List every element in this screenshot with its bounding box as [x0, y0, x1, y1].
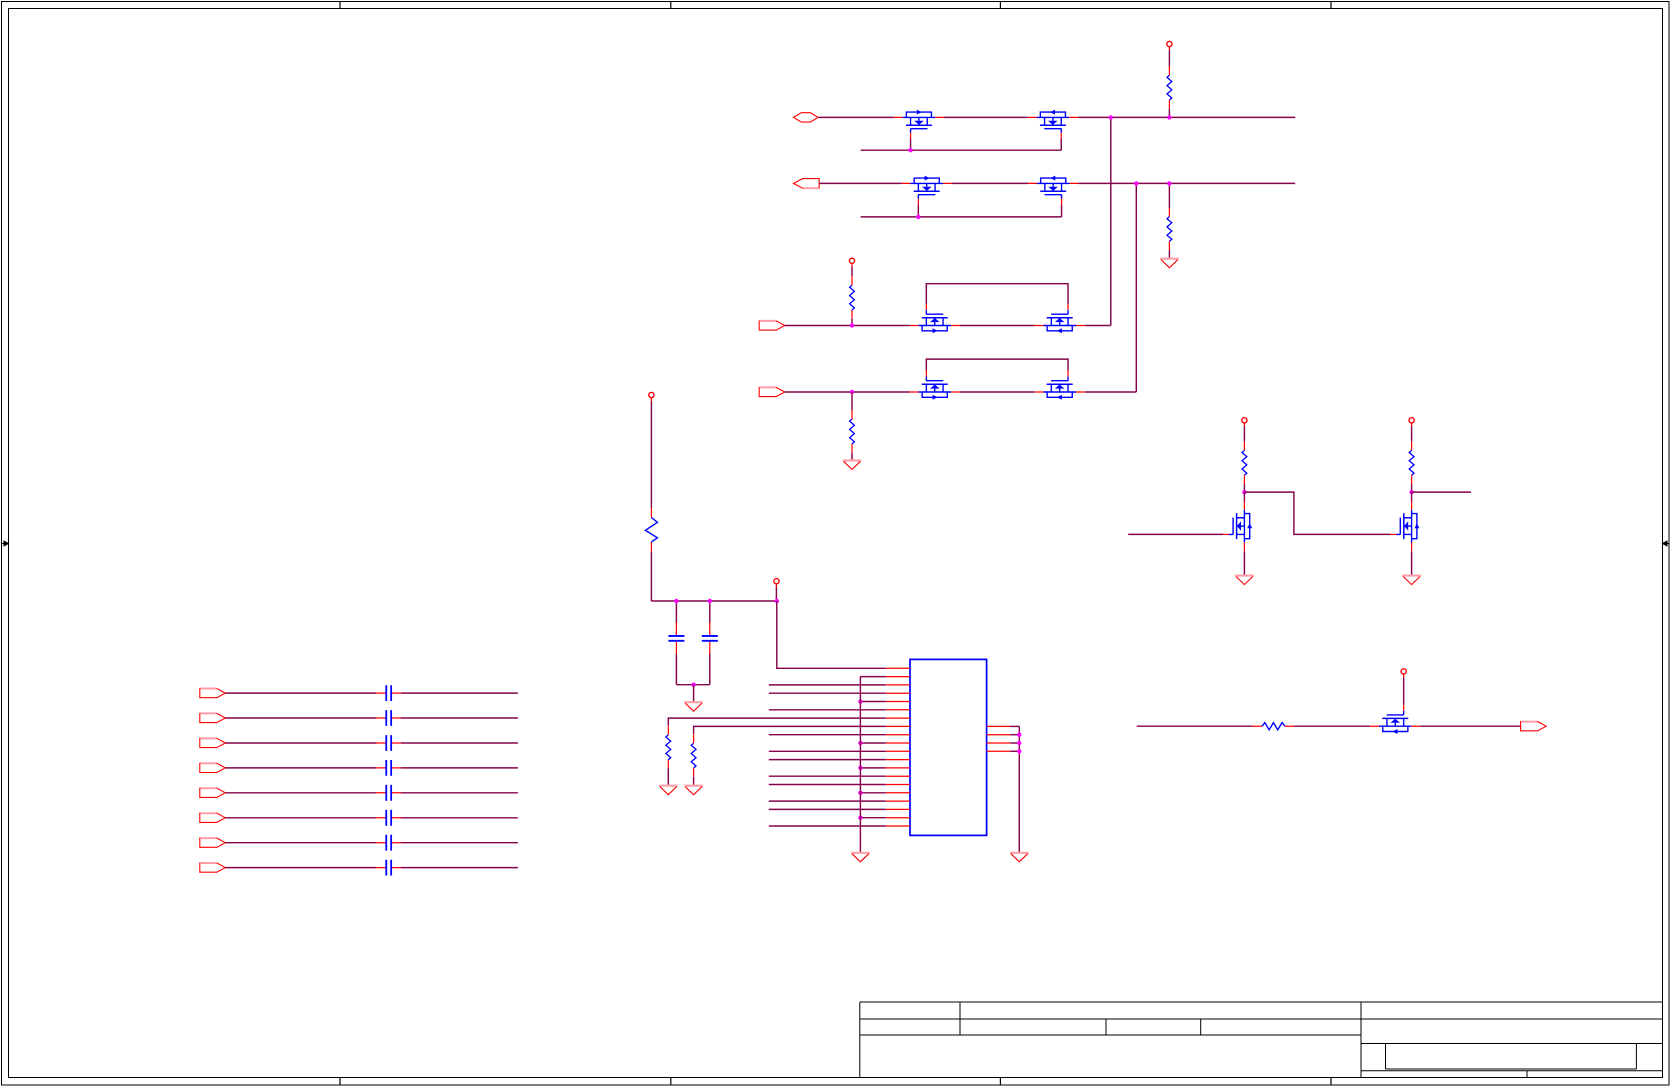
border zone ticks top [339, 2, 341, 9]
capacitor C10 [376, 860, 401, 876]
wire [1411, 492, 1413, 501]
port column row 3 [200, 738, 226, 747]
border mid arrow left [2, 540, 10, 546]
resistor R2 [1167, 208, 1172, 250]
wire IC pin [769, 825, 886, 827]
wire [225, 867, 376, 869]
port P3 mid wire 1 [759, 321, 785, 330]
wire [225, 742, 376, 744]
wire [225, 692, 376, 694]
wire [1411, 427, 1413, 442]
wire right pin stubs [1010, 725, 1019, 727]
ground [1010, 853, 1029, 862]
wire [225, 842, 376, 844]
wire [401, 792, 518, 794]
wire [225, 767, 376, 769]
ground [843, 460, 862, 469]
wire [667, 769, 669, 785]
wire [1168, 183, 1170, 208]
transistor Q8 [1035, 370, 1085, 399]
wire [401, 717, 518, 719]
resistor R5 [645, 508, 657, 551]
wire [693, 777, 695, 785]
ground [1160, 259, 1179, 268]
port P1 (bidirectional) top wire 1 [794, 113, 819, 122]
wire IC pin [769, 800, 886, 802]
wire IC bus stub row2 [860, 676, 885, 678]
wire gate bus 1 [861, 149, 1062, 151]
wire [1243, 484, 1245, 492]
wire IC pin [769, 784, 886, 786]
wire IC pin8 to R7 [694, 726, 886, 734]
node junction [708, 599, 712, 603]
ground [1402, 576, 1421, 585]
ground [1235, 576, 1254, 585]
resistor R1 [1167, 67, 1172, 109]
wire [401, 842, 518, 844]
power pin VCC nfet 2 [1409, 418, 1414, 427]
port column row 6 [200, 813, 226, 822]
wire [851, 267, 853, 276]
transistor Q4 [1028, 176, 1078, 205]
wire vertical to mid wire 2 [1135, 183, 1137, 392]
wire [225, 817, 376, 819]
node junction [1017, 741, 1021, 745]
node junction [1017, 733, 1021, 737]
port column row 5 [200, 788, 226, 797]
resistor R9 [1409, 442, 1414, 484]
wire [401, 767, 518, 769]
wire vertical to mid wire 1 [1110, 117, 1112, 325]
wire [1411, 551, 1413, 575]
wire Q4 gate drop [1061, 205, 1063, 217]
wire [1168, 109, 1170, 118]
wire [401, 742, 518, 744]
capacitor C4 [376, 710, 401, 726]
wire power rail [651, 600, 776, 602]
wire right ground bus [1018, 726, 1020, 852]
wire [401, 817, 518, 819]
node junction [674, 599, 678, 603]
node junction [908, 148, 912, 152]
node junction [1167, 115, 1171, 119]
node junction [1167, 181, 1171, 185]
wire [819, 116, 894, 118]
power pin VCC [849, 258, 854, 267]
wire IC pin [769, 692, 886, 694]
wire [944, 116, 1028, 118]
wire [1078, 182, 1295, 184]
wire IC ground bus [859, 677, 861, 852]
node junction [1134, 181, 1138, 185]
wire [952, 182, 1028, 184]
capacitor C9 [376, 835, 401, 851]
node junction [916, 215, 920, 219]
transistor Q6 [1035, 304, 1085, 333]
wire IC pin [769, 808, 886, 810]
wire gate bus 2 [861, 216, 1062, 218]
port P4 mid wire 2 [759, 387, 785, 396]
node junction [858, 816, 862, 820]
wire [819, 182, 902, 184]
power pin VDD rail [774, 579, 779, 588]
wire [1294, 725, 1370, 727]
wire [851, 453, 853, 460]
ground [684, 702, 703, 711]
transistor Q7 [910, 370, 960, 399]
resistor R8 [1242, 442, 1247, 484]
wire Q3 gate drop [917, 205, 919, 217]
wire [1085, 391, 1137, 393]
wire [775, 587, 777, 601]
wire IC pin7 to R6 [668, 718, 886, 726]
node junction [1409, 490, 1413, 494]
capacitor C1 [675, 601, 677, 623]
wire IC pin [769, 750, 886, 752]
IC U1 left pins [886, 668, 910, 826]
wire [693, 685, 695, 702]
title block [860, 1002, 1663, 1078]
capacitor C2 [709, 601, 711, 623]
op-amp/IC U1 [910, 659, 987, 835]
wire gate loop 1 [926, 284, 1068, 304]
wire [1168, 50, 1170, 66]
wire Q1 gate drop [910, 139, 912, 150]
wire IC pin [769, 734, 886, 736]
capacitor C6 [376, 760, 401, 776]
wire [1137, 725, 1253, 727]
power pin VCC nfet 1 [1242, 418, 1247, 427]
IC U1 right pins [987, 726, 1011, 751]
wire IC pin [769, 759, 886, 761]
transistor Q9 [1223, 501, 1252, 551]
node junction [850, 323, 854, 327]
wire Q11 gate riser [1403, 678, 1405, 705]
wire Q9 drain to Q10 gate [1244, 492, 1390, 534]
wire Q10 drain stub [1412, 491, 1471, 493]
wire [650, 551, 652, 601]
node junction [850, 390, 854, 394]
wire cap commons [676, 684, 709, 686]
wire [1243, 427, 1245, 442]
transistor Q10 [1390, 501, 1419, 551]
transistor Q5 [910, 304, 960, 333]
power pin VCC [1167, 41, 1172, 50]
ground [851, 853, 870, 862]
wire [785, 391, 910, 393]
wire Q2 gate drop [1060, 139, 1062, 150]
wire [960, 325, 1035, 327]
power pin VDD left [649, 392, 654, 401]
wire [1243, 492, 1245, 501]
wire [1078, 116, 1295, 118]
wire [851, 319, 853, 326]
wire [851, 392, 853, 410]
capacitor C8 [376, 810, 401, 826]
node junction [775, 599, 779, 603]
node junction [858, 766, 862, 770]
wire IC bus stub [860, 767, 885, 769]
resistor R7 [691, 734, 696, 776]
transistor Q2 [1028, 110, 1078, 139]
wire [1085, 325, 1111, 327]
node junction [858, 741, 862, 745]
wire [1168, 250, 1170, 258]
wire IC bus stub [860, 792, 885, 794]
node junction [1242, 490, 1246, 494]
power pin VCC Q11 [1401, 669, 1406, 678]
wire Q9 gate feed [1128, 533, 1223, 535]
wire [1411, 484, 1413, 492]
wire IC pin [769, 709, 886, 711]
ground [684, 786, 703, 795]
wire [401, 867, 518, 869]
node junction [858, 699, 862, 703]
node junction [691, 683, 695, 687]
port column row 8 [200, 863, 226, 872]
capacitor C7 [376, 785, 401, 801]
node junction [1109, 115, 1113, 119]
wire IC bus stub [860, 742, 885, 744]
node junction [1017, 749, 1021, 753]
wire [785, 325, 910, 327]
wire [960, 391, 1035, 393]
wire [1420, 725, 1520, 727]
wire [401, 692, 518, 694]
port P2 (output, points left) top wire 2 [794, 179, 820, 189]
resistor R10 [1252, 723, 1294, 730]
wire IC pin [769, 684, 886, 686]
wire IC bus stub [860, 817, 885, 819]
port column row 7 [200, 838, 226, 847]
port column row 1 [200, 689, 226, 698]
transistor Q3 [902, 176, 952, 205]
transistor Q11 [1370, 705, 1420, 734]
border mid arrow right [1662, 540, 1670, 546]
resistor R6 [666, 726, 671, 768]
wire rail to IC pin1 [777, 601, 886, 668]
transistor Q1 [894, 110, 944, 139]
capacitor C5 [376, 735, 401, 751]
wire IC bus stub [860, 701, 885, 703]
wire [225, 792, 376, 794]
port column row 4 [200, 763, 226, 772]
capacitor C3 [376, 685, 401, 701]
resistor R4 [850, 410, 855, 452]
wire [1243, 551, 1245, 575]
port P5 (output right) [1521, 722, 1547, 731]
resistor R3 [850, 276, 855, 318]
node junction [858, 791, 862, 795]
wire [225, 717, 376, 719]
wire [650, 401, 652, 508]
wire gate loop 2 [926, 359, 1068, 370]
border zone ticks bottom [339, 1078, 341, 1086]
wire IC pin [769, 775, 886, 777]
port column row 2 [200, 713, 226, 722]
ground [659, 786, 678, 795]
